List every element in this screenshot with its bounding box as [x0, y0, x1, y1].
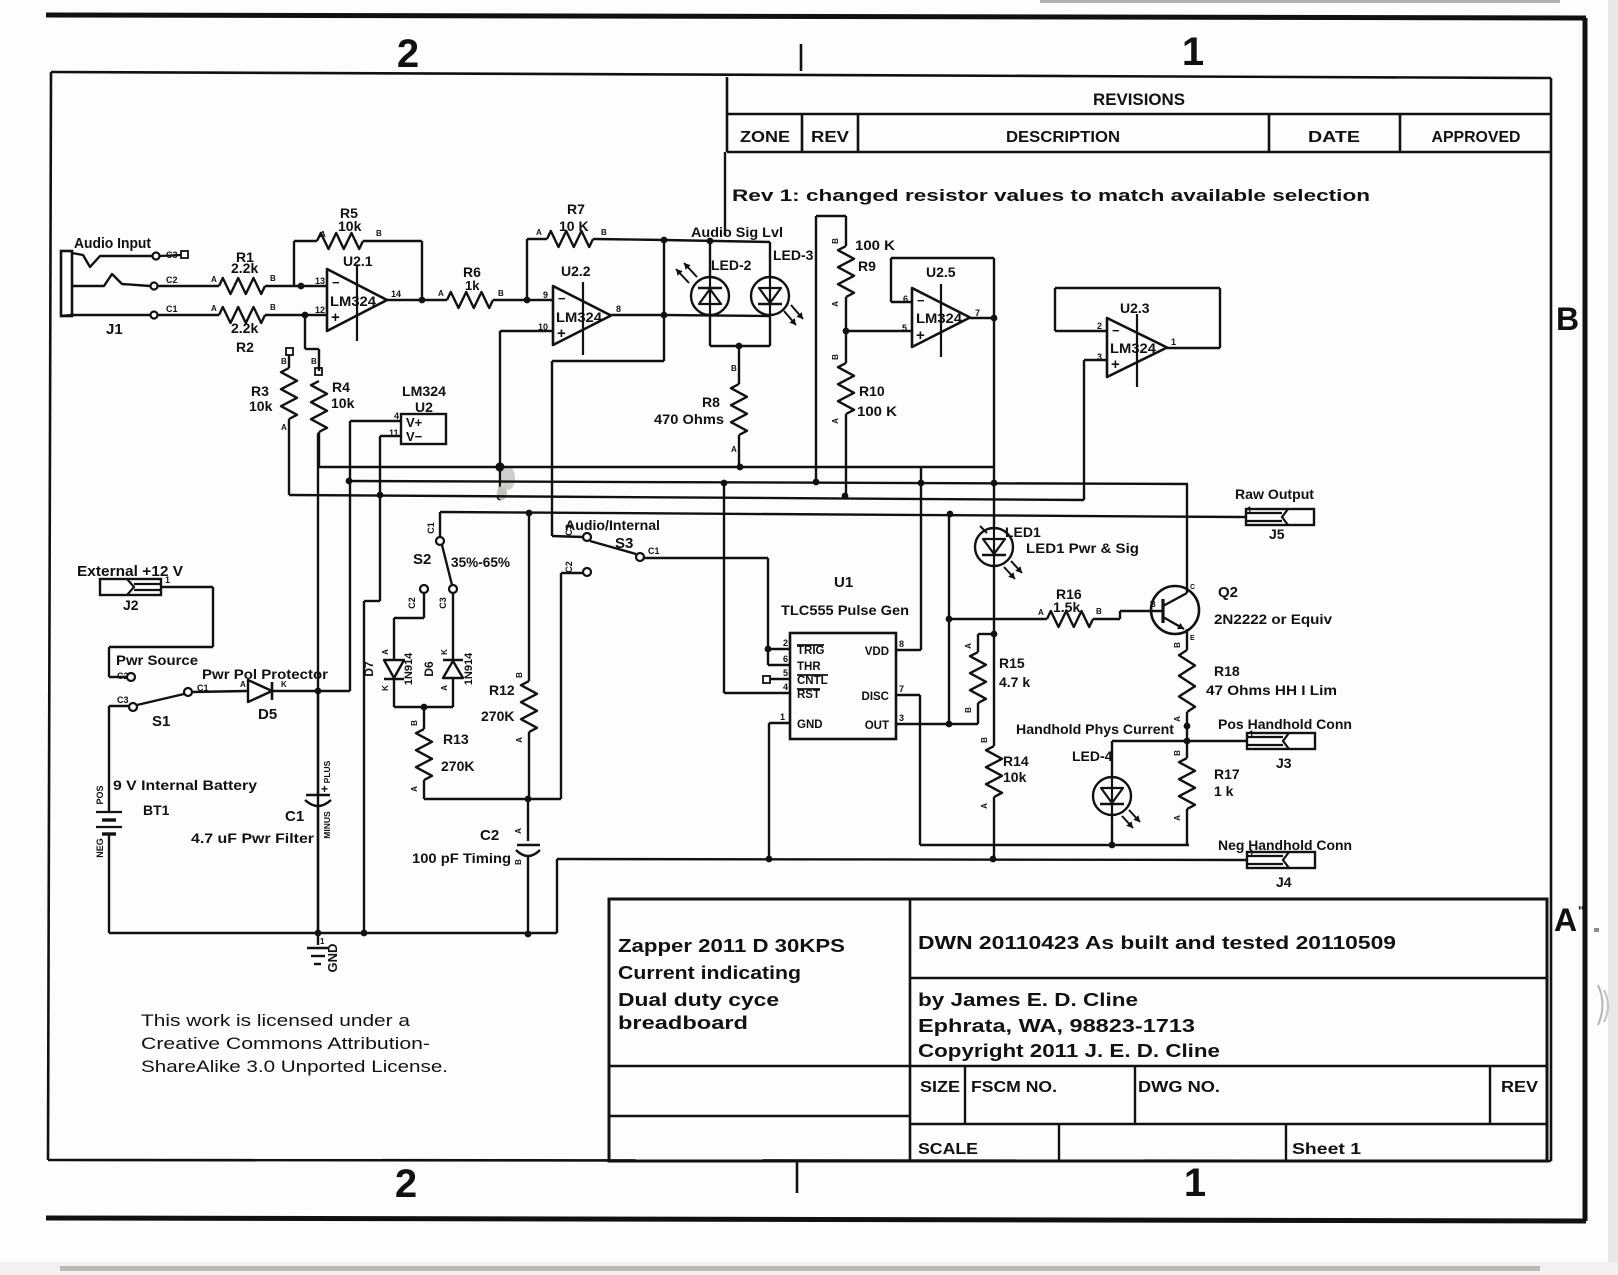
svg-text:4.7 k: 4.7 k: [999, 674, 1030, 690]
svg-text:A: A: [980, 803, 989, 809]
svg-text:C1: C1: [285, 808, 304, 825]
svg-text:C2: C2: [480, 827, 499, 844]
svg-text:B: B: [376, 229, 382, 238]
svg-text:LED1: LED1: [1005, 524, 1041, 540]
svg-text:LM324: LM324: [556, 310, 603, 325]
svg-text:R7: R7: [567, 201, 585, 217]
svg-text:C1: C1: [426, 522, 436, 534]
svg-text:LM324: LM324: [330, 294, 377, 309]
svg-text:C3: C3: [564, 524, 574, 536]
svg-text:1: 1: [1171, 337, 1176, 347]
svg-text:A: A: [831, 418, 840, 424]
svg-text:LED-3: LED-3: [773, 247, 814, 263]
svg-text:Copyright 2011 J. E. D. Cline: Copyright 2011 J. E. D. Cline: [918, 1041, 1220, 1061]
svg-text:270K: 270K: [481, 708, 514, 724]
svg-text:+: +: [331, 309, 340, 326]
svg-text:1: 1: [165, 575, 170, 585]
svg-text:2N2222 or Equiv: 2N2222 or Equiv: [1214, 611, 1332, 627]
svg-text:3: 3: [899, 713, 904, 723]
svg-text:470 Ohms: 470 Ohms: [654, 411, 724, 427]
svg-text:C2: C2: [407, 597, 417, 609]
svg-text:10k: 10k: [338, 218, 362, 234]
svg-text:E: E: [1190, 635, 1195, 642]
svg-text:2.2k: 2.2k: [231, 260, 258, 276]
svg-text:+: +: [1111, 356, 1120, 373]
svg-text:B: B: [515, 672, 524, 678]
svg-text:C2: C2: [166, 275, 178, 285]
svg-text:1k: 1k: [465, 278, 480, 293]
svg-text:B: B: [514, 859, 523, 865]
svg-text:GND: GND: [325, 944, 340, 973]
svg-text:−: −: [1112, 323, 1120, 338]
svg-text:TRIG: TRIG: [797, 645, 825, 657]
svg-text:B: B: [270, 303, 276, 312]
svg-text:A: A: [964, 643, 973, 649]
svg-text:A: A: [1554, 902, 1577, 938]
svg-text:Audio/Internal: Audio/Internal: [565, 517, 660, 533]
svg-text:Current indicating: Current indicating: [618, 963, 801, 983]
svg-text:+: +: [557, 325, 566, 342]
svg-text:D5: D5: [258, 706, 277, 723]
svg-text:B: B: [1150, 600, 1156, 609]
svg-text:DISC: DISC: [862, 691, 889, 703]
svg-text:47 Ohms HH I Lim: 47 Ohms HH I Lim: [1206, 682, 1337, 698]
svg-text:D6: D6: [422, 661, 436, 677]
svg-text:LED-2: LED-2: [711, 257, 752, 273]
svg-text:A: A: [240, 680, 246, 689]
svg-text:R14: R14: [1003, 753, 1029, 769]
svg-text:This work is licensed under a: This work is licensed under a: [141, 1011, 411, 1030]
svg-text:9 V Internal Battery: 9 V Internal Battery: [113, 777, 257, 793]
svg-text:A: A: [381, 649, 390, 655]
svg-text:8: 8: [616, 304, 621, 314]
svg-text:B: B: [1173, 750, 1182, 756]
svg-text:R15: R15: [999, 655, 1025, 671]
svg-text:B: B: [498, 289, 504, 298]
svg-text:SCALE: SCALE: [918, 1141, 978, 1158]
svg-text:B: B: [964, 707, 973, 713]
svg-text:Ephrata, WA, 98823-1713: Ephrata, WA, 98823-1713: [918, 1016, 1195, 1036]
svg-text:Pos Handhold Conn: Pos Handhold Conn: [1218, 716, 1352, 732]
svg-text:1N914: 1N914: [403, 652, 415, 685]
svg-text:V−: V−: [406, 429, 423, 444]
svg-text:A: A: [831, 301, 840, 307]
svg-text:1: 1: [1249, 729, 1254, 739]
svg-text:2: 2: [1097, 321, 1102, 331]
svg-text:DWG NO.: DWG NO.: [1138, 1079, 1220, 1096]
svg-text:A: A: [1173, 815, 1182, 821]
svg-text:ShareAlike 3.0 Unported Licens: ShareAlike 3.0 Unported License.: [141, 1057, 448, 1076]
svg-text:1: 1: [780, 712, 785, 722]
svg-text:U2.1: U2.1: [343, 253, 373, 269]
svg-text:J3: J3: [1276, 755, 1292, 771]
svg-text:Audio Input: Audio Input: [74, 235, 151, 252]
svg-text:Sheet 1: Sheet 1: [1292, 1141, 1361, 1158]
svg-text:1.5k: 1.5k: [1053, 599, 1080, 615]
svg-text:B: B: [1556, 301, 1579, 337]
svg-text:C1: C1: [648, 546, 660, 556]
svg-text:Rev 1: changed resistor val: Rev 1: changed resistor values to match …: [732, 186, 1370, 205]
svg-text:breadboard: breadboard: [618, 1013, 748, 1033]
svg-text:V+: V+: [406, 415, 423, 430]
svg-text:10k: 10k: [331, 395, 355, 411]
svg-text:CNTL: CNTL: [797, 675, 828, 687]
svg-text:6: 6: [783, 654, 788, 664]
svg-text:A: A: [1038, 608, 1044, 617]
svg-text:U2: U2: [415, 399, 433, 415]
svg-text:LM324: LM324: [402, 383, 446, 399]
svg-text:5: 5: [783, 668, 788, 678]
svg-text:B: B: [831, 238, 840, 244]
svg-text:C1: C1: [166, 304, 178, 314]
svg-text:B: B: [831, 354, 840, 360]
svg-text:S3: S3: [615, 535, 633, 552]
svg-text:APPROVED: APPROVED: [1432, 129, 1521, 146]
svg-text:R13: R13: [443, 731, 469, 747]
svg-text:DATE: DATE: [1308, 129, 1360, 146]
svg-text:14: 14: [391, 289, 401, 299]
svg-text:ZONE: ZONE: [740, 129, 790, 146]
svg-text:S1: S1: [152, 713, 170, 730]
svg-text:R2: R2: [236, 339, 254, 355]
svg-text:MINUS: MINUS: [322, 811, 332, 839]
svg-text:1: 1: [1247, 505, 1252, 515]
svg-text:2.2k: 2.2k: [231, 320, 258, 336]
svg-text:OUT: OUT: [865, 720, 889, 732]
svg-text:2: 2: [395, 1162, 417, 1206]
svg-text:C: C: [1190, 584, 1195, 591]
svg-text:A: A: [410, 786, 419, 792]
svg-text:A: A: [731, 445, 737, 454]
svg-text:C3: C3: [438, 597, 448, 609]
svg-text:A: A: [281, 423, 287, 432]
svg-text:B: B: [410, 720, 419, 726]
svg-text:by James E. D. Cline: by James E. D. Cline: [918, 990, 1138, 1010]
svg-text:7: 7: [899, 684, 904, 694]
svg-text:S2: S2: [413, 551, 431, 568]
svg-text:+: +: [916, 327, 925, 344]
svg-text:10k: 10k: [1003, 769, 1027, 785]
svg-text:Pwr Pol Protector: Pwr Pol Protector: [202, 666, 329, 682]
svg-text:1N914: 1N914: [463, 652, 475, 685]
svg-text:10k: 10k: [249, 398, 273, 414]
svg-text:SIZE: SIZE: [920, 1079, 960, 1096]
svg-text:D7: D7: [362, 661, 376, 677]
svg-text:R10: R10: [859, 383, 885, 399]
svg-text:9: 9: [543, 290, 548, 300]
svg-text:100 K: 100 K: [857, 403, 897, 419]
svg-text:100 K: 100 K: [855, 237, 895, 253]
svg-text:A: A: [536, 228, 542, 237]
svg-text:C3: C3: [166, 250, 178, 260]
svg-text:5: 5: [902, 323, 907, 333]
svg-text:PLUS: PLUS: [322, 760, 332, 783]
svg-text:C3: C3: [117, 695, 129, 705]
svg-text:LED1 Pwr & Sig: LED1 Pwr & Sig: [1026, 540, 1139, 556]
svg-text:B: B: [311, 357, 317, 366]
svg-text:THR: THR: [797, 661, 821, 673]
svg-text:TLC555 Pulse Gen: TLC555 Pulse Gen: [781, 602, 909, 618]
svg-text:2: 2: [783, 638, 788, 648]
svg-text:8: 8: [899, 639, 904, 649]
svg-text:1: 1: [1184, 1161, 1206, 1205]
svg-text:K: K: [281, 680, 287, 689]
svg-text:J5: J5: [1269, 526, 1285, 542]
svg-text:A: A: [211, 275, 217, 284]
svg-text:REVISIONS: REVISIONS: [1093, 90, 1185, 109]
svg-text:13: 13: [315, 276, 325, 286]
svg-text:LED-4: LED-4: [1072, 748, 1113, 764]
svg-text:ʺ: ʺ: [1578, 903, 1584, 918]
svg-text:35%-65%: 35%-65%: [451, 554, 511, 570]
svg-text:−: −: [332, 275, 340, 290]
svg-text:−: −: [917, 293, 925, 308]
svg-text:B: B: [281, 357, 287, 366]
svg-text:B: B: [601, 228, 607, 237]
svg-text:4.7 uF Pwr Filter: 4.7 uF Pwr Filter: [191, 830, 315, 846]
svg-text:R3: R3: [251, 383, 269, 399]
svg-text:U1: U1: [834, 574, 853, 591]
svg-text:1: 1: [1182, 30, 1204, 74]
svg-text:BT1: BT1: [143, 802, 170, 818]
svg-text:A: A: [1173, 716, 1182, 722]
svg-text:POS: POS: [95, 785, 105, 804]
svg-text:A: A: [438, 289, 444, 298]
svg-text:R9: R9: [858, 258, 876, 274]
svg-text:7: 7: [975, 308, 980, 318]
svg-text:REV: REV: [1501, 1079, 1538, 1096]
svg-text:B: B: [1096, 607, 1102, 616]
svg-text:4: 4: [783, 682, 788, 692]
svg-text:Neg Handhold Conn: Neg Handhold Conn: [1218, 837, 1352, 853]
svg-text:B: B: [1173, 642, 1182, 648]
svg-text:U2.2: U2.2: [561, 263, 591, 279]
svg-text:R12: R12: [489, 682, 515, 698]
svg-text:R4: R4: [332, 379, 350, 395]
svg-text:12: 12: [315, 305, 325, 315]
svg-text:J4: J4: [1276, 874, 1292, 890]
svg-text:Audio Sig Lvl: Audio Sig Lvl: [691, 224, 783, 240]
svg-text:U2.3: U2.3: [1120, 300, 1150, 316]
svg-text:B: B: [731, 364, 737, 373]
svg-text:C2: C2: [117, 671, 129, 681]
svg-text:Q2: Q2: [1218, 584, 1238, 601]
svg-text:4: 4: [394, 411, 399, 421]
svg-text:NEG: NEG: [95, 838, 105, 858]
svg-text:LM324: LM324: [1110, 341, 1157, 356]
svg-text:C2: C2: [564, 561, 574, 573]
svg-text:K: K: [440, 649, 449, 655]
svg-text:100 pF Timing: 100 pF Timing: [412, 850, 511, 866]
svg-text:B: B: [270, 274, 276, 283]
svg-text:−: −: [558, 291, 566, 306]
svg-text:Zapper 2011 D 30KPS: Zapper 2011 D 30KPS: [618, 936, 845, 956]
svg-text:J1: J1: [106, 321, 123, 338]
svg-text:A: A: [320, 230, 326, 239]
svg-text:REV: REV: [811, 129, 849, 146]
svg-text:A: A: [440, 685, 449, 691]
svg-text:A: A: [515, 737, 524, 743]
svg-text:2: 2: [397, 32, 419, 76]
svg-text:DESCRIPTION: DESCRIPTION: [1006, 129, 1120, 146]
svg-text:Pwr Source: Pwr Source: [116, 652, 198, 668]
svg-text:10 K: 10 K: [559, 218, 589, 234]
svg-text:LM324: LM324: [916, 311, 963, 326]
svg-text:J2: J2: [123, 597, 139, 613]
svg-text:U2.5: U2.5: [926, 264, 956, 280]
svg-text:Raw Output: Raw Output: [1235, 486, 1314, 502]
svg-text:1 k: 1 k: [1214, 783, 1234, 799]
svg-text:R18: R18: [1214, 663, 1240, 679]
svg-text:Creative Commons Attribution-: Creative Commons Attribution-: [141, 1034, 430, 1053]
svg-text:VDD: VDD: [865, 646, 889, 658]
svg-text:A: A: [211, 304, 217, 313]
svg-text:B: B: [980, 737, 989, 743]
svg-text:GND: GND: [797, 719, 823, 731]
svg-text:R17: R17: [1214, 766, 1240, 782]
svg-text:K: K: [381, 685, 390, 691]
svg-text:R8: R8: [702, 394, 720, 410]
svg-text:RST: RST: [797, 689, 820, 701]
svg-text:FSCM NO.: FSCM NO.: [971, 1079, 1057, 1096]
svg-text:A: A: [514, 828, 523, 834]
svg-text:270K: 270K: [441, 758, 474, 774]
svg-text:Dual duty cyce: Dual duty cyce: [618, 990, 779, 1010]
svg-text:Handhold Phys Current: Handhold Phys Current: [1016, 721, 1174, 737]
svg-text:DWN 20110423 As built and test: DWN 20110423 As built and tested 2011050…: [918, 933, 1396, 953]
svg-text:1: 1: [1249, 848, 1254, 858]
